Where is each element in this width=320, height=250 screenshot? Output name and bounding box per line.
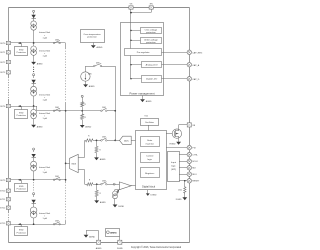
svg-text:DIM: DIM [55, 39, 59, 41]
LED diode (internal clamp) [31, 154, 35, 157]
svg-text:OUT9: OUT9 [0, 180, 6, 182]
svg-text:Pre-regulator: Pre-regulator [137, 51, 150, 54]
current source ILED [81, 72, 90, 81]
wire stub to ESD box ch3 [21, 180, 23, 183]
svg-text:DIM: DIM [102, 107, 106, 109]
pin OUT1 [6, 51, 10, 54]
wire OUT6 jog [36, 106, 38, 111]
svg-text:AGND: AGND [100, 201, 106, 204]
junction mux line / mux output [65, 163, 67, 165]
wire to ground ch2 [33, 119, 35, 125]
svg-text:AGND: AGND [146, 100, 152, 103]
LED diode (internal clamp) [31, 15, 35, 18]
wire stub to ESD box [21, 43, 23, 47]
svg-text:CAP_D: CAP_D [192, 78, 199, 81]
adc ADC [120, 136, 132, 144]
svg-text:AGND: AGND [97, 46, 103, 49]
pin VS top [129, 6, 133, 9]
svg-text:Registers: Registers [145, 172, 155, 175]
wire rail to LDO [131, 78, 142, 80]
ground DGND REF [182, 197, 187, 200]
net VS supply glyph [33, 74, 35, 76]
svg-text:SDI: SDI [192, 168, 196, 170]
switch DIM ch3 [53, 179, 55, 181]
ground AGND under OT box [91, 45, 96, 48]
wire mux output [66, 163, 70, 165]
svg-text:VS: VS [130, 3, 133, 5]
svg-text:AGND: AGND [89, 235, 95, 238]
under-voltage protection box [141, 38, 162, 44]
junction ADC input node [114, 140, 116, 142]
arrowhead into OUT0 pin [18, 42, 21, 44]
pin OUT6 [6, 104, 10, 107]
wire OUT9 pin to node [11, 179, 66, 181]
pin OUT11 [6, 198, 10, 201]
net VS glyph divider2 [81, 95, 83, 97]
ground AGND internal source [83, 84, 88, 87]
wire to ground ch1 [33, 56, 35, 63]
svg-text:Internal Sink: Internal Sink [39, 112, 50, 115]
digital LDO box [142, 76, 162, 83]
wire oscillator to digital [148, 125, 150, 131]
svg-text:R: R [88, 136, 90, 138]
svg-text:Protection: Protection [17, 231, 27, 234]
wire divider2 to gnd [82, 120, 84, 126]
svg-text:CAP_A: CAP_A [192, 64, 199, 67]
wire bandgap to CAP_A [162, 64, 188, 66]
junction OUT15 node [33, 223, 35, 225]
input logic box [168, 152, 180, 182]
svg-text:Protection: Protection [17, 188, 27, 191]
junction mux line / OUT9 wire [65, 179, 67, 181]
svg-text:AGND: AGND [85, 126, 91, 129]
wire to pin SDO [179, 174, 187, 176]
wire OUT9 column [33, 171, 35, 180]
svg-text:AGND: AGND [37, 125, 43, 128]
wire gate drive [166, 133, 173, 135]
svg-text:CAP_REG: CAP_REG [192, 51, 202, 54]
svg-text:DIM: DIM [55, 221, 59, 223]
svg-text:EN: EN [150, 3, 153, 5]
pin OUT9 [6, 178, 10, 181]
wire OUT6 column [33, 96, 35, 106]
wire to pin CTRL [179, 154, 187, 156]
wire divider2 switch to ADC line [107, 110, 115, 112]
wire OUT15 pin to node [11, 224, 66, 226]
ESD protection box ch1 [15, 47, 28, 56]
resistor R shunt divider1 [96, 141, 98, 147]
wire to pin TW [166, 147, 187, 149]
svg-text:1 µA: 1 µA [43, 171, 48, 174]
pin OUT2 [6, 60, 10, 63]
svg-text:ADC: ADC [124, 140, 129, 143]
net VS supply glyph [33, 148, 35, 150]
ground AGND ch1 [31, 62, 36, 65]
ground AGND internal tie [84, 235, 89, 238]
svg-text:OUT15: OUT15 [0, 223, 6, 225]
svg-text:16MHz: 16MHz [110, 233, 118, 235]
svg-text:(SPI): (SPI) [171, 169, 176, 171]
current sink (internal sink 1uA) [31, 161, 37, 167]
svg-text:Over-temperature: Over-temperature [83, 33, 101, 36]
bandgap box [142, 62, 162, 68]
ESD protection box ch2 [15, 110, 28, 119]
junction mux line / OUT6 wire [65, 110, 67, 112]
pin OUT0 [6, 41, 10, 44]
wire REF pulldown lower [184, 193, 186, 198]
svg-text:OUT11: OUT11 [0, 199, 6, 201]
wire REF pulldown upper [184, 181, 186, 187]
svg-text:R: R [85, 117, 87, 119]
svg-text:ESD: ESD [19, 50, 24, 52]
wire divider1 to ADC junction [107, 140, 115, 142]
svg-text:1 µA: 1 µA [43, 217, 48, 220]
svg-text:Digital LDO: Digital LDO [146, 78, 157, 81]
svg-text:RESET: RESET [192, 181, 200, 183]
digital block outer box [136, 131, 167, 190]
current sink (internal sink 1uA) [31, 21, 37, 27]
wire OUT15 column [33, 218, 35, 224]
mirror current sink ch1 [33, 43, 35, 46]
switch DIM ch2 [53, 110, 55, 112]
ground AGND divider1 [94, 157, 99, 160]
svg-text:R: R [89, 180, 91, 182]
wire LDO to CAP_D [162, 78, 188, 80]
svg-text:TW: TW [192, 148, 195, 150]
registers box [141, 168, 160, 178]
switch DIM ch4 [53, 223, 55, 225]
pre-regulator box [125, 49, 162, 56]
wire to pin RESET [179, 180, 187, 182]
svg-text:ESD: ESD [19, 230, 24, 232]
pin SCLK [187, 159, 191, 163]
wire mux branch B [78, 169, 85, 171]
junction OUT9 node [33, 179, 35, 181]
wire OUT6 pin to node [11, 106, 38, 108]
wire divider1 [93, 140, 101, 142]
wire current source to op-amp [114, 190, 116, 192]
svg-text:protection: protection [146, 41, 156, 44]
svg-text:AGND: AGND [96, 247, 102, 250]
svg-text:AGND: AGND [37, 63, 43, 66]
pin CAP_D [187, 77, 191, 81]
junction op-amp inverting input [117, 190, 119, 192]
switch DIM divider1 [101, 140, 103, 142]
svg-text:MUX: MUX [72, 164, 77, 166]
pin AGND bottom [97, 240, 101, 244]
over-voltage protection box [141, 28, 162, 34]
svg-text:protection: protection [146, 31, 156, 34]
svg-text:DIM: DIM [55, 176, 59, 178]
wire to pin SCLK [179, 161, 187, 163]
svg-text:Internal Sink: Internal Sink [39, 31, 50, 34]
svg-text:1 µA: 1 µA [43, 36, 48, 39]
ellipsis dots channels [33, 67, 34, 68]
oscillator box [141, 119, 159, 126]
svg-text:DGND: DGND [118, 206, 124, 208]
wire divider3 to op-amp [107, 184, 120, 186]
wire stub to ESD box ch4 [21, 224, 23, 227]
mirror current sink ch2 [33, 106, 35, 110]
svg-text:OUT10: OUT10 [0, 191, 6, 193]
current sink (internal sink 1uA) [31, 86, 37, 92]
wire branch down to ADC line [115, 66, 117, 141]
svg-text:Internal Sink: Internal Sink [39, 93, 50, 96]
resistor R upper divider2 [82, 100, 84, 103]
wire rail to bandgap [131, 64, 142, 66]
pin EN top [149, 6, 153, 9]
wire PM to ground [142, 96, 144, 100]
switch DIM ch1 [53, 42, 55, 44]
junction RESET pulldown [184, 180, 186, 182]
switch DIM internal source [94, 65, 96, 67]
wire digital to ground [147, 190, 149, 194]
arrowhead into OUT6 pin [18, 105, 21, 107]
device boundary right border [189, 8, 191, 243]
svg-text:Copyright © 2016, Texas Instru: Copyright © 2016, Texas Instruments Inco… [131, 246, 182, 249]
pin DGND bottom [118, 240, 122, 244]
resistor R series divider3 [85, 184, 87, 186]
wire source to ground [85, 81, 87, 85]
pin CTRL [187, 152, 191, 156]
device boundary bottom border [9, 242, 190, 244]
wire rail to OV [131, 30, 141, 32]
wire VS rail [130, 10, 132, 80]
ground DGND digital [146, 193, 150, 196]
wire OT to ground [93, 43, 95, 46]
net VS supply glyph [33, 10, 35, 12]
wire divider3 shunt to gnd [96, 197, 98, 201]
svg-text:Analog LDO: Analog LDO [146, 63, 158, 66]
svg-text:protection: protection [87, 36, 97, 39]
pin VB [187, 123, 191, 127]
current source reference DAC [113, 191, 118, 196]
svg-text:1 µA: 1 µA [43, 99, 48, 102]
over-temperature protection box [81, 30, 105, 43]
svg-text:Internal Sink: Internal Sink [39, 166, 50, 169]
wire stub to ESD box ch2 [21, 106, 23, 110]
wire divider2 tap to switch [66, 110, 101, 112]
wire pre-regulator to CAP_REG [162, 52, 188, 54]
oscillator crystal box 16MHz [106, 229, 120, 237]
ESD protection box ch3 [15, 184, 28, 192]
op-amp comparator [119, 182, 131, 190]
svg-text:DGND: DGND [176, 199, 182, 201]
ESD protection box ch4 [15, 227, 28, 236]
wire ADC input [115, 140, 120, 142]
wire divider2 tap [82, 107, 84, 112]
svg-text:OUT3: OUT3 [0, 72, 6, 74]
svg-text:State: State [147, 139, 153, 142]
wire op-amp output [131, 185, 136, 187]
wire to pin SDI [179, 167, 187, 169]
svg-text:1 µA: 1 µA [43, 117, 48, 120]
pin CAP_REG [187, 50, 191, 54]
svg-text:R: R [100, 193, 102, 195]
state machine box [141, 137, 160, 147]
wire divider1 shunt to gnd [96, 153, 98, 158]
svg-text:DGND: DGND [151, 195, 157, 197]
wire ADC output [131, 140, 136, 142]
svg-text:R: R [99, 149, 101, 151]
pin OUT10 [6, 189, 10, 192]
resistor R pulldown REF [184, 187, 186, 193]
wire internal source branch [86, 66, 94, 68]
svg-text:OUT6: OUT6 [0, 106, 6, 108]
transistor M1 (power MOSFET) [172, 129, 181, 138]
arrowhead into OUT9 pin [18, 179, 21, 181]
svg-text:DIM: DIM [96, 62, 100, 64]
mux MUX [70, 154, 79, 172]
wire drain to VB pin [178, 125, 180, 131]
junction divider3 tap [96, 183, 98, 185]
svg-text:ESD: ESD [19, 113, 24, 115]
pin RESET [187, 179, 191, 183]
device boundary top border [9, 7, 190, 9]
pin OUT12 [6, 206, 10, 209]
wire crystal to DGND pin [119, 237, 121, 241]
svg-text:DIM: DIM [102, 181, 106, 183]
junction OUT0 node [33, 42, 35, 44]
pin CAP_A [187, 62, 191, 66]
LED diode (internal clamp) [31, 200, 35, 203]
svg-text:DIM: DIM [102, 137, 106, 139]
switch DIM divider2 [101, 110, 103, 112]
ground AGND divider3 [94, 200, 99, 203]
ground DGND op-amp [113, 205, 118, 208]
svg-text:OUT12: OUT12 [0, 208, 6, 210]
ground AGND power management [140, 99, 145, 102]
svg-text:AGND: AGND [89, 85, 95, 88]
svg-text:ILED: ILED [88, 74, 93, 76]
pin SDO [187, 172, 191, 176]
wire current source to gnd [114, 199, 116, 205]
svg-text:SDO: SDO [192, 174, 197, 176]
current sink (internal sink 1uA) [30, 207, 37, 214]
arrowhead into OUT15 pin [18, 223, 21, 225]
wire rail to UV [131, 40, 141, 42]
svg-text:Internal Sink: Internal Sink [39, 49, 50, 52]
svg-text:Trim: Trim [144, 114, 148, 117]
dashed continuation below node ch3 [33, 182, 35, 191]
svg-text:SCLK: SCLK [192, 161, 198, 163]
wire divider3 [93, 184, 101, 186]
junction divider2 tap [81, 110, 83, 112]
wire OUT0 column [33, 30, 35, 43]
svg-text:Power management: Power management [129, 92, 154, 96]
pin TW [187, 145, 191, 149]
svg-text:OUT1: OUT1 [0, 52, 6, 54]
svg-text:machine: machine [146, 144, 155, 146]
svg-text:Protection: Protection [17, 51, 27, 54]
svg-text:CTRL: CTRL [192, 155, 198, 157]
svg-text:1 µA: 1 µA [43, 54, 48, 57]
svg-text:Control: Control [146, 155, 154, 158]
wire mux sense line [65, 43, 67, 48]
svg-text:VB: VB [192, 125, 195, 127]
pin OUT3 [6, 71, 10, 74]
svg-text:Protection: Protection [17, 114, 27, 117]
wire source to HGND [178, 136, 180, 142]
svg-text:AGND: AGND [100, 158, 106, 161]
wire mux branch A [78, 157, 85, 159]
svg-text:Input: Input [171, 161, 176, 164]
pin SDI [187, 166, 191, 170]
pin OUT15 [6, 222, 10, 225]
LED diode (internal clamp) [31, 80, 35, 83]
junction OUT6 node [33, 105, 35, 107]
svg-text:R: R [85, 104, 87, 106]
wire EN to rail [151, 10, 153, 13]
svg-text:DIM: DIM [55, 107, 59, 109]
junction ADC line / divider2 [114, 110, 116, 112]
svg-text:Internal Sink: Internal Sink [39, 212, 50, 215]
junction EN/VS rail [130, 12, 132, 14]
svg-text:OUT0: OUT0 [0, 43, 6, 45]
device boundary left border [8, 8, 10, 78]
net VS supply glyph [33, 193, 35, 195]
svg-text:OUT2: OUT2 [0, 62, 6, 64]
wire OUT0 pin to node [11, 42, 66, 44]
resistor R lower divider2 [82, 111, 84, 114]
svg-text:Oscillator: Oscillator [145, 121, 154, 124]
ground AGND divider2 [80, 125, 85, 128]
junction op-amp input bubble [113, 183, 115, 185]
resistor R series divider1 [85, 140, 86, 142]
resistor R shunt divider3 [96, 184, 98, 191]
svg-text:Digital block: Digital block [142, 186, 156, 189]
junction divider1 tap [96, 140, 98, 142]
svg-text:ESD: ESD [19, 186, 24, 188]
power management outer box [121, 23, 164, 96]
svg-text:150k: 150k [178, 190, 182, 192]
control logic box [141, 153, 160, 163]
svg-text:HGND: HGND [170, 144, 176, 146]
wire AGND pin riser [98, 231, 100, 241]
switch DIM divider3 [101, 183, 103, 185]
ground AGND ch2 [31, 125, 36, 128]
ground HGND [176, 142, 181, 145]
